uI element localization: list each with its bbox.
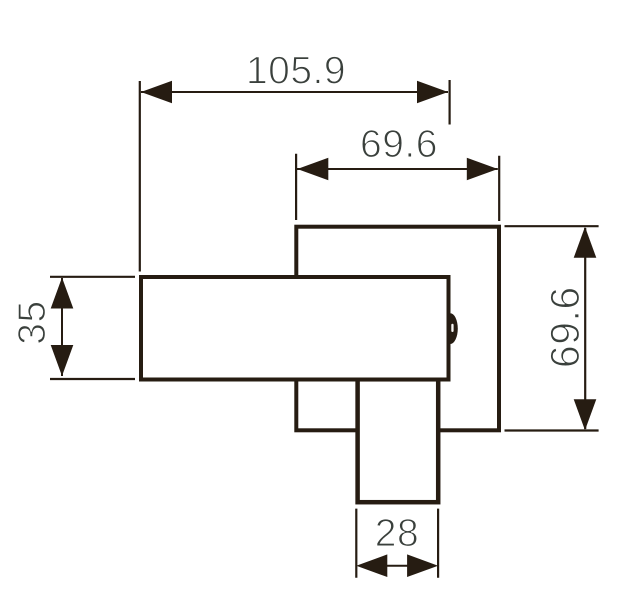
svg-text:69.6: 69.6 (360, 123, 438, 166)
svg-text:28: 28 (375, 512, 419, 555)
svg-text:69.6: 69.6 (542, 286, 588, 368)
svg-text:35: 35 (11, 300, 54, 344)
svg-text:105.9: 105.9 (246, 50, 346, 93)
